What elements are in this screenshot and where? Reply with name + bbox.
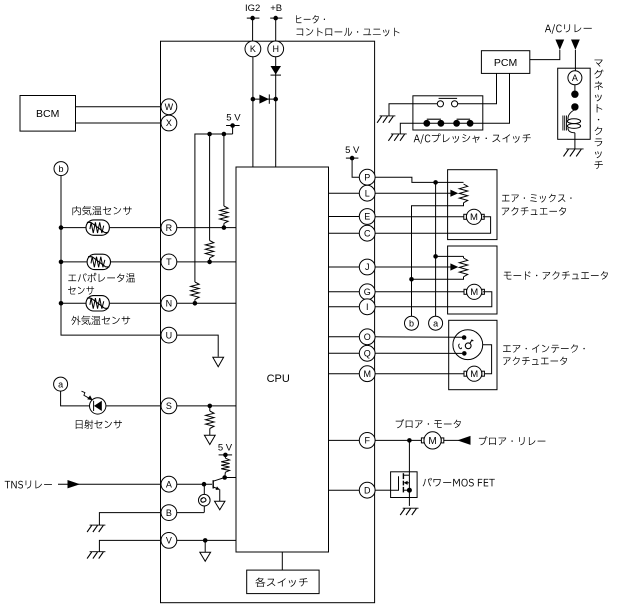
svg-text:5 V: 5 V — [218, 442, 233, 453]
terminal G — [359, 284, 375, 300]
wire branch T lower — [207, 258, 212, 264]
ground FET — [400, 508, 418, 515]
wire CPU to F — [329, 439, 360, 441]
label inside air temp sensor — [72, 206, 131, 215]
wire O to switch — [375, 336, 462, 339]
wire V to CPU — [177, 539, 236, 541]
wire BCM to X — [76, 122, 162, 124]
terminal N — [161, 295, 177, 311]
resistor R-pullup — [220, 206, 228, 223]
junction b-T — [59, 260, 64, 265]
ground arrow U — [213, 357, 224, 367]
junction b-N — [59, 301, 64, 306]
ground pressure 1 — [377, 116, 395, 123]
wire 5V to P — [352, 158, 359, 177]
terminal R — [161, 220, 177, 236]
junction S pulldown — [208, 404, 213, 409]
svg-text:P: P — [364, 172, 370, 182]
thermistor inside air — [86, 220, 109, 235]
wire photodiode to S — [106, 405, 161, 407]
wire b-column right — [411, 279, 413, 316]
wire pressure top left — [389, 104, 437, 116]
ground arrow S — [204, 435, 215, 444]
PCM label — [494, 57, 517, 69]
wire R to CPU — [177, 227, 236, 229]
label solar sensor — [76, 420, 122, 429]
label evaporator temp sensor line2 — [68, 286, 94, 294]
coil clutch — [563, 110, 581, 133]
svg-text:L: L — [365, 188, 370, 198]
label blower motor — [396, 419, 461, 428]
wire branch R lower — [222, 223, 227, 230]
wire 5V rail — [195, 134, 233, 282]
terminal D — [359, 482, 375, 498]
junction Q1 collector — [222, 475, 227, 480]
wire S resistor upper — [209, 406, 211, 411]
wire thermistor3 right — [110, 302, 161, 304]
ground pressure 2 — [388, 134, 406, 141]
svg-text:M: M — [428, 436, 436, 447]
net 5V label 2 — [218, 442, 233, 453]
arrow AC relay 1 — [555, 40, 564, 50]
terminal F — [359, 433, 375, 449]
label air intake actuator line1 — [503, 344, 585, 353]
wire a-column — [435, 182, 437, 316]
wire D to gate — [375, 489, 391, 491]
terminal Q — [359, 345, 375, 361]
wire CPU to O — [329, 336, 360, 338]
wire branch T upper — [209, 134, 211, 241]
connector b left — [54, 162, 68, 176]
arrow AC relay 2 — [571, 40, 580, 50]
wire thermistor3 left — [61, 302, 86, 304]
wire a to photodiode — [61, 391, 90, 406]
wire +B to H — [275, 18, 277, 41]
net +B terminal bar — [270, 16, 282, 21]
contact clutch — [571, 91, 578, 111]
svg-text:5 V: 5 V — [345, 145, 360, 156]
svg-text:A: A — [572, 73, 578, 83]
transistor Q1 — [213, 478, 225, 502]
label blower relay — [479, 436, 546, 445]
wire CPU to D — [329, 489, 360, 491]
junction A-lamp — [202, 482, 207, 487]
label AC pressure switch — [414, 133, 531, 143]
wire M to motor3 — [375, 373, 466, 375]
power MOS FET box — [391, 472, 418, 498]
terminal I — [359, 299, 375, 315]
terminal E — [359, 209, 375, 225]
wire branch R upper — [223, 134, 225, 206]
net 5V label 1 — [226, 112, 241, 123]
wire relay2 to clutch — [574, 50, 577, 71]
label AC relay — [545, 24, 592, 34]
svg-text:W: W — [165, 102, 174, 112]
terminal U — [161, 327, 177, 343]
wire V junction down — [204, 540, 206, 552]
CPU box — [236, 167, 329, 552]
wire CPU to switches — [281, 552, 283, 570]
ground arrow V — [200, 552, 211, 561]
motor M3 air intake — [464, 366, 484, 381]
resistor Q1 collector pullup — [221, 455, 229, 478]
magnet clutch box — [558, 68, 591, 139]
resistor N-pullup — [191, 282, 199, 299]
terminal X — [161, 115, 177, 131]
wire branch N lower — [193, 299, 198, 305]
wire B to ground — [99, 513, 161, 526]
junction rail-T — [207, 132, 212, 137]
wire G to motor2 — [375, 291, 466, 293]
svg-text:B: B — [166, 508, 172, 518]
wire clutch contact lower — [574, 109, 576, 112]
terminal C — [359, 225, 375, 241]
motor M4 blower — [421, 432, 443, 449]
terminal A — [161, 476, 177, 492]
wire B to lamp — [177, 512, 204, 514]
wire S resistor lower — [209, 429, 211, 436]
svg-text:b: b — [58, 164, 63, 174]
ammeter A clutch — [568, 71, 582, 85]
ground B — [87, 525, 105, 532]
wire thermistor1 left — [61, 227, 86, 229]
svg-text:O: O — [364, 332, 371, 342]
wire A to transistor base — [177, 483, 212, 485]
wire H to CPU — [275, 57, 277, 167]
svg-text:S: S — [166, 401, 172, 411]
label switches — [255, 578, 307, 587]
thermistor evaporator — [87, 254, 110, 269]
svg-text:D: D — [364, 485, 371, 495]
junction b-R — [59, 225, 64, 230]
label TNS relay — [5, 480, 52, 488]
wire CPU to J — [329, 266, 360, 268]
svg-text:E: E — [364, 212, 370, 222]
CPU label — [267, 373, 290, 385]
svg-text:C: C — [364, 228, 371, 238]
terminal H — [268, 41, 284, 57]
wire F junction to FET — [408, 440, 410, 475]
terminal O — [359, 329, 375, 345]
wire motor1 to C — [375, 217, 491, 233]
switch block box — [247, 570, 319, 594]
svg-text:BCM: BCM — [36, 108, 59, 120]
wire clutch contact upper — [574, 85, 576, 91]
svg-text:G: G — [364, 287, 371, 297]
wire coil to ground — [574, 133, 576, 149]
PCM box — [481, 51, 529, 74]
label mode actuator — [504, 271, 608, 280]
label power MOS FET — [423, 478, 495, 487]
svg-text:M: M — [470, 212, 478, 223]
wire S to CPU — [177, 405, 236, 407]
label outside air temp sensor — [71, 316, 130, 325]
wire motor4 to relay — [444, 439, 471, 441]
svg-text:M: M — [363, 369, 371, 379]
arrow L wiper — [450, 190, 458, 197]
svg-text:J: J — [365, 262, 370, 272]
wire CPU to G — [329, 291, 360, 293]
net 5V label 3 — [345, 145, 360, 156]
potentiometer mode — [459, 258, 467, 277]
ground V — [87, 552, 105, 559]
wire U to ground — [177, 335, 218, 357]
svg-text:H: H — [272, 44, 279, 54]
junction on H line — [273, 97, 278, 102]
wire T to CPU — [177, 261, 236, 263]
air intake actuator box — [449, 320, 497, 389]
terminal B — [161, 505, 177, 521]
pressure switch contacts bottom — [423, 119, 474, 127]
svg-text:Q: Q — [364, 349, 371, 359]
wire E to motor1 — [375, 216, 466, 218]
wire motor2 to I — [375, 292, 492, 307]
terminal P — [359, 169, 375, 185]
label air mix actuator line2 — [502, 207, 566, 216]
terminal W — [161, 99, 177, 115]
terminal T — [161, 254, 177, 270]
net IG2 label — [245, 3, 260, 14]
wire pressure bottom right — [474, 73, 510, 123]
svg-text:a: a — [433, 319, 438, 329]
svg-text:a: a — [58, 380, 63, 390]
svg-text:U: U — [166, 330, 173, 340]
wire mode pot top — [436, 256, 464, 258]
svg-text:F: F — [364, 436, 370, 446]
wire CPU to L — [329, 192, 360, 194]
label air intake actuator line2 — [503, 357, 567, 366]
ground arrow Q1 emitter — [215, 501, 225, 510]
arrow blower relay — [457, 436, 470, 445]
svg-text:X: X — [166, 118, 172, 128]
svg-text:K: K — [250, 44, 256, 54]
svg-text:M: M — [470, 287, 478, 298]
junction V — [203, 538, 208, 543]
air mix actuator box — [448, 170, 497, 240]
ground clutch — [563, 149, 583, 157]
connector b right — [405, 316, 419, 330]
svg-text:5 V: 5 V — [226, 112, 241, 123]
wire pot bottom to b-column — [412, 203, 464, 279]
connector a right — [429, 316, 443, 330]
wire 5V down — [232, 126, 234, 135]
wire BCM to W — [76, 106, 162, 108]
mode actuator box — [448, 246, 497, 314]
thermistor outside air — [86, 296, 109, 311]
rotary switch air intake — [453, 330, 483, 360]
wire mode pot bottom — [412, 277, 464, 280]
junction on K line — [251, 97, 256, 102]
wire thermistor2 right — [111, 261, 161, 263]
wire N to CPU — [177, 302, 236, 304]
label magnet clutch vertical — [594, 60, 603, 170]
wire b column — [61, 176, 161, 336]
label air mix actuator line1 — [502, 194, 572, 203]
svg-text:IG2: IG2 — [245, 3, 260, 14]
wire IG2 to K — [252, 18, 254, 41]
wire thermistor1 right — [110, 227, 161, 229]
wire Q to switch — [375, 352, 462, 354]
wire CPU to I — [329, 306, 360, 308]
wire P to pot top — [375, 177, 463, 182]
lamp TNS illumination — [199, 484, 211, 512]
label evaporator temp sensor line1 — [68, 273, 135, 283]
terminal K — [245, 41, 261, 57]
supply 5V bar 3 — [346, 156, 359, 161]
svg-text:M: M — [470, 369, 478, 380]
wire K to CPU — [252, 57, 254, 167]
svg-text:b: b — [409, 319, 414, 329]
supply 5V bar 2 — [219, 453, 233, 458]
wire thermistor2 left — [61, 261, 87, 263]
net +B label — [270, 3, 282, 14]
wire J wiper — [375, 266, 453, 268]
wire V to ground left — [99, 540, 161, 551]
motor M1 air mix — [464, 209, 484, 224]
terminal L — [359, 185, 375, 201]
svg-text:A: A — [166, 479, 172, 489]
BCM label — [36, 108, 59, 120]
svg-text:I: I — [366, 302, 369, 312]
heater control unit box — [161, 41, 375, 603]
arrow TNS — [68, 480, 81, 488]
arrow J wiper — [450, 263, 458, 270]
svg-text:CPU: CPU — [267, 373, 290, 385]
photodiode solar sensor — [82, 391, 106, 414]
terminal S — [161, 398, 177, 414]
wire CPU to M — [329, 373, 360, 375]
junction b-column mode — [409, 277, 414, 282]
svg-text:N: N — [166, 299, 173, 309]
svg-text:R: R — [166, 223, 173, 233]
supply 5V bar 1 — [226, 123, 240, 128]
svg-text:T: T — [166, 257, 172, 267]
pressure switch contacts top — [437, 98, 457, 107]
resistor S-pulldown — [206, 411, 214, 429]
BCM box — [20, 96, 76, 132]
wire CPU to Q — [329, 352, 360, 354]
svg-text:V: V — [166, 536, 172, 546]
wire L wiper — [375, 192, 453, 194]
net IG2 terminal bar — [247, 16, 260, 21]
AC pressure switch box — [413, 96, 483, 130]
junction rail-R — [222, 132, 227, 137]
diode D1 vertical — [271, 66, 282, 75]
potentiometer air mix — [459, 184, 467, 203]
junction F — [407, 438, 412, 443]
junction P line a-column — [433, 180, 438, 185]
diode D2 horizontal — [253, 94, 276, 103]
wire TNS to A — [58, 483, 161, 485]
wire collector to CPU — [225, 477, 236, 479]
resistor T-pullup — [205, 241, 213, 258]
wire pressure bottom left — [400, 123, 424, 134]
label heater control unit line2 — [297, 28, 400, 37]
motor M2 mode — [464, 284, 484, 299]
wire relay1 to PCM — [530, 50, 560, 60]
label heater control unit line1 — [296, 15, 325, 24]
wire F to motor4 — [375, 439, 424, 441]
MOSFET Q2 — [391, 473, 412, 506]
wire CPU to C — [329, 232, 360, 234]
wire switch to motor3 — [483, 345, 492, 374]
terminal M — [359, 366, 375, 382]
wire CPU to E — [329, 216, 360, 218]
terminal V — [161, 533, 177, 549]
terminal J — [359, 259, 375, 275]
junction a-column mode — [433, 254, 438, 259]
wire pressure top right — [458, 73, 497, 103]
connector a left — [54, 377, 68, 391]
svg-text:PCM: PCM — [494, 57, 517, 69]
svg-text:+B: +B — [270, 3, 282, 14]
